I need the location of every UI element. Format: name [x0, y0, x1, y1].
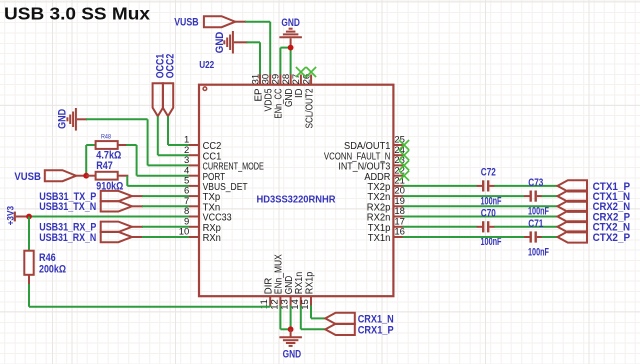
svg-text:VUSB: VUSB: [14, 171, 41, 183]
svg-text:RXn: RXn: [203, 233, 221, 244]
wire R46 to pin 11 DIR: [29, 275, 270, 307]
svg-text:R48: R48: [101, 133, 111, 140]
flag OCC1: [153, 54, 167, 117]
capacitor C71: [528, 218, 549, 259]
pin 24 VCONN_FAULT_N (right side of U22): [324, 145, 405, 163]
flag CTX2_P: [558, 231, 631, 244]
IC U22 refdes: [199, 59, 214, 71]
svg-text:VUSB: VUSB: [174, 17, 198, 29]
flag USB31_RX_N: [39, 232, 132, 244]
svg-text:16: 16: [394, 227, 405, 238]
wire pin 19 to flag CRX2_N: [403, 205, 558, 207]
pin 5 VBUS_DET (left side of U22): [184, 176, 248, 194]
svg-text:USB 3.0 SS Mux: USB 3.0 SS Mux: [4, 4, 150, 24]
pin 7 TXn (left side of U22): [184, 196, 220, 214]
pin 23 INT_N/OUT3 (right side of U22): [338, 155, 405, 173]
svg-text:TX1n: TX1n: [368, 233, 391, 244]
wire USB31_RX_N to pin 10 RXn: [132, 236, 189, 238]
wire GND to pin 3 CURRENT_MODE: [77, 119, 189, 165]
svg-text:GND: GND: [281, 17, 300, 29]
svg-text:USB31_RX_N: USB31_RX_N: [39, 232, 96, 244]
pin 19 RX2p (right side of U22): [367, 196, 405, 214]
flag CRX1_N: [325, 313, 393, 326]
pin 31 EP (top side of U22): [250, 74, 264, 102]
svg-text:U22: U22: [199, 59, 214, 71]
pin 6 TXp (left side of U22): [184, 186, 221, 204]
flag USB31_RX_P: [39, 222, 132, 234]
wire pin 17 to C70: [403, 226, 482, 228]
no-connect X pin 26 SCL/OUT2: [306, 67, 316, 77]
wire C71 to flag CTX2_P: [537, 236, 558, 238]
wire pin 21 to C72: [403, 185, 482, 187]
wire C70 to flag CTX2_N: [489, 226, 557, 228]
pin 17 TX1p (right side of U22): [368, 216, 405, 234]
pin 13 GND (bottom side of U22): [280, 276, 295, 310]
pin 20 TX2n (right side of U22): [367, 186, 405, 204]
flag CRX1_P: [325, 324, 393, 337]
wire junction to pin 29 ENn_CC: [280, 48, 290, 75]
supply +3V3: [5, 206, 15, 226]
resistor R48: [96, 133, 122, 161]
wire pin 18 to flag CRX2_P: [403, 216, 558, 218]
wire USB31_TX_P to pin 6 TXp: [132, 195, 189, 197]
wire GND to pin 31 EP: [234, 42, 260, 74]
wire OCC1 to pin 2 CC1: [158, 116, 189, 155]
title text USB 3.0 SS Mux: [4, 4, 150, 24]
ground GND (bottom): [279, 329, 302, 360]
capacitor C73: [528, 177, 549, 218]
flag USB31_TX_N: [39, 201, 132, 213]
flag USB31_TX_P: [39, 191, 132, 203]
no-connect X pin 27 ID: [296, 67, 306, 77]
wire VUSB to junction: [76, 175, 86, 177]
svg-text:C71: C71: [528, 218, 543, 230]
pin 8 VCC33 (left side of U22): [184, 206, 232, 224]
no-connect X pin 25 SDA/OUT1: [399, 140, 409, 150]
wire GND down to junction: [290, 38, 292, 47]
svg-text:RX1p: RX1p: [304, 271, 315, 294]
capacitor C70: [481, 208, 502, 249]
svg-text:GND: GND: [283, 348, 302, 360]
svg-text:C73: C73: [528, 177, 543, 189]
svg-text:GND: GND: [214, 32, 226, 54]
flag CTX1_P: [558, 180, 631, 193]
pin 3 CURRENT_MODE (left side of U22): [184, 155, 264, 173]
junction dot 3V3: [26, 214, 32, 220]
wire junction up to R48: [86, 145, 95, 176]
pin 22 ADDR (right side of U22): [364, 165, 405, 183]
pin 11 DIR (bottom side of U22): [259, 278, 274, 309]
pin 15 RX1p (bottom side of U22): [300, 271, 315, 309]
wire pin 12 ENn_MUX to junction: [280, 305, 290, 329]
flag CTX1_N: [558, 191, 631, 204]
wire pin 15 RX1p to CRX1_N: [311, 305, 325, 318]
svg-text:GND: GND: [57, 109, 69, 129]
no-connect X pin 24 VCONN_FAULT_N: [399, 150, 409, 160]
supply flag VUSB (top): [174, 16, 235, 28]
ground GND (top middle, rotated): [214, 31, 233, 54]
pin 29 ENn_CC (top side of U22): [271, 74, 285, 119]
IC U22 value HD3SS3220RNHR: [257, 195, 336, 206]
no-connect X pin 22 ADDR: [399, 171, 409, 181]
svg-text:+3V3: +3V3: [5, 206, 15, 226]
wire pin 20 to C73: [403, 195, 530, 197]
capacitor C72: [481, 167, 502, 208]
pin 12 ENn_MUX (bottom side of U22): [269, 254, 284, 310]
pin 10 RXn (left side of U22): [179, 227, 221, 245]
svg-text:10: 10: [179, 227, 190, 238]
svg-text:200kΩ: 200kΩ: [39, 264, 66, 276]
svg-text:HD3SS3220RNHR: HD3SS3220RNHR: [257, 195, 336, 206]
pin 9 RXp (left side of U22): [184, 216, 221, 234]
svg-text:100nF: 100nF: [528, 246, 549, 258]
wire OCC2 to pin 1 CC2: [168, 116, 189, 145]
wire C73 to flag CTX1_N: [537, 195, 558, 197]
ground GND (left, rotated): [57, 108, 76, 131]
pin 21 TX2p (right side of U22): [367, 176, 405, 194]
wire VUSB to pin 30 VDD5: [235, 22, 270, 75]
svg-text:C70: C70: [481, 208, 496, 220]
wire pin 14 RX1n to CRX1_P: [301, 305, 326, 329]
supply flag VUSB (left): [14, 170, 76, 183]
pin 18 RX2n (right side of U22): [367, 206, 405, 224]
svg-text:USB31_TX_N: USB31_TX_N: [39, 201, 96, 213]
pin 27 ID (top side of U22): [291, 74, 305, 98]
svg-text:R46: R46: [39, 252, 56, 264]
flag CRX2_P: [558, 211, 631, 224]
svg-text:C72: C72: [481, 167, 496, 179]
IC U22 body: [199, 85, 393, 297]
wire pin 16 to C71: [403, 236, 530, 238]
wire R48 to pin 4 PORT: [118, 145, 189, 176]
flag CRX2_N: [558, 201, 631, 214]
wire 3V3 down to R46: [28, 217, 30, 251]
wire pin 13 GND to junction: [290, 305, 292, 329]
pin 25 SDA/OUT1 (right side of U22): [344, 135, 405, 153]
pin 4 PORT (left side of U22): [184, 165, 225, 183]
wire R47 to pin 5 VBUS_DET: [118, 176, 189, 186]
wire USB31_TX_N to pin 7 TXn: [132, 205, 189, 207]
wire 3V3 rail to pin 8 VCC33: [28, 216, 189, 218]
pin 28 GND (top side of U22): [281, 74, 295, 107]
pin 30 VDD5 (top side of U22): [261, 74, 275, 112]
junction dot at GND net: [288, 45, 294, 51]
svg-text:CRX1_P: CRX1_P: [358, 324, 394, 336]
junction dot VUSB: [83, 173, 89, 179]
resistor R46: [24, 251, 66, 276]
no-connect X pin 23 INT_N/OUT3: [399, 160, 409, 170]
svg-text:R47: R47: [96, 160, 113, 172]
resistor R47: [86, 160, 123, 192]
junction dot bottom GND: [288, 326, 294, 332]
svg-text:OCC2: OCC2: [165, 54, 177, 79]
wire +3V3 to junction: [16, 216, 29, 218]
pin 2 CC1 (left side of U22): [184, 145, 222, 163]
ground GND (top right): [279, 17, 302, 38]
pin 1 CC2 (left side of U22): [184, 135, 222, 153]
wire junction to pin 28 GND: [290, 48, 292, 75]
svg-text:CTX2_P: CTX2_P: [593, 232, 631, 244]
wire C72 to flag CTX1_P: [489, 185, 557, 187]
wire USB31_RX_P to pin 9 RXp: [132, 226, 189, 228]
flag CTX2_N: [558, 221, 631, 234]
pin 14 RX1n (bottom side of U22): [290, 272, 305, 310]
pin 26 SCL/OUT2 (top side of U22): [301, 74, 315, 129]
svg-text:SCL/OUT2: SCL/OUT2: [304, 88, 315, 128]
pin 16 TX1n (right side of U22): [368, 227, 405, 245]
flag OCC2: [163, 54, 177, 117]
